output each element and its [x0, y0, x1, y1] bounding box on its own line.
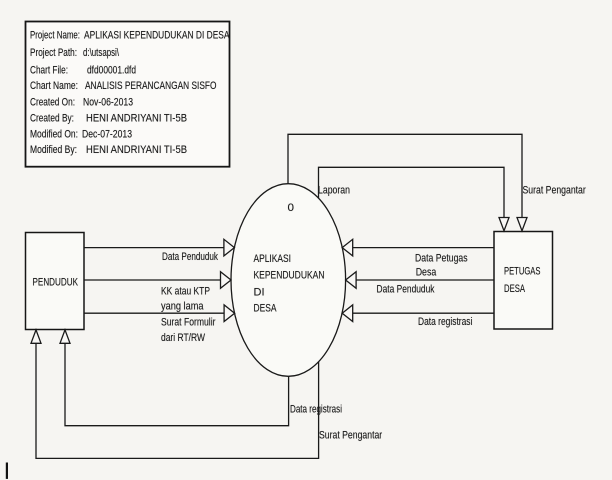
svg-text:Project Path:: Project Path: [30, 47, 77, 59]
svg-text:Data registrasi: Data registrasi [290, 404, 342, 416]
svg-text:DI: DI [254, 287, 265, 299]
svg-text:KEPENDUDUKAN: KEPENDUDUKAN [254, 269, 325, 281]
svg-text:Chart Name:: Chart Name: [30, 80, 78, 92]
external entity PENDUDUK [26, 233, 85, 330]
project info box [26, 22, 230, 167]
svg-text:DESA: DESA [254, 302, 277, 314]
svg-text:Data Petugas: Data Petugas [415, 253, 468, 265]
svg-text:Desa: Desa [416, 267, 437, 279]
svg-text:Modified On:: Modified On: [30, 128, 78, 140]
svg-text:KK atau KTP: KK atau KTP [161, 285, 210, 297]
svg-text:PENDUDUK: PENDUDUK [33, 277, 79, 289]
svg-text:Chart File:: Chart File: [30, 64, 68, 76]
svg-text:Created By:: Created By: [30, 113, 74, 125]
svg-text:HENI ANDRIYANI TI-5B: HENI ANDRIYANI TI-5B [86, 144, 187, 156]
svg-text:Data Penduduk: Data Penduduk [377, 284, 435, 296]
svg-text:Modified By:: Modified By: [30, 144, 77, 156]
process 0 APLIKASI KEPENDUDUKAN DI DESA [231, 184, 346, 377]
flow Surat Pengantar (0 to PENDUDUK, bottom outer) [31, 330, 382, 459]
text cursor artifact bottom-left [6, 463, 8, 479]
svg-text:DESA: DESA [504, 283, 525, 295]
svg-text:Data Penduduk: Data Penduduk [162, 251, 218, 263]
svg-text:APLIKASI KEPENDUDUKAN DI DESA: APLIKASI KEPENDUDUKAN DI DESA [84, 29, 230, 41]
flow Surat Pengantar (0 to PETUGAS DESA, top outer) [288, 134, 586, 231]
flow Data registrasi (0 to PENDUDUK, bottom inner) [60, 330, 342, 426]
flow Data Petugas Desa (PETUGAS DESA to 0) [342, 239, 494, 278]
external entity PETUGAS DESA [494, 232, 553, 330]
svg-text:Nov-06-2013: Nov-06-2013 [83, 96, 133, 108]
flow Data Penduduk (PETUGAS DESA to 0) [346, 272, 494, 296]
svg-text:Dec-07-2013: Dec-07-2013 [82, 128, 132, 140]
svg-text:d:\utsapsi\: d:\utsapsi\ [83, 47, 120, 59]
svg-text:Project Name:: Project Name: [30, 29, 80, 41]
svg-text:yang lama: yang lama [161, 301, 204, 313]
flow Data Penduduk (PENDUDUK to 0) [84, 239, 234, 263]
svg-text:PETUGAS: PETUGAS [504, 266, 541, 278]
svg-text:0: 0 [288, 202, 295, 214]
svg-text:APLIKASI: APLIKASI [254, 253, 292, 265]
svg-text:dfd00001.dfd: dfd00001.dfd [87, 64, 136, 76]
svg-text:HENI ANDRIYANI TI-5B: HENI ANDRIYANI TI-5B [86, 113, 187, 125]
flow Surat Formulir dari RT/RW (PENDUDUK to 0) [84, 305, 235, 344]
svg-text:ANALISIS PERANCANGAN SISFO: ANALISIS PERANCANGAN SISFO [85, 80, 217, 92]
svg-text:Surat Pengantar: Surat Pengantar [523, 185, 587, 197]
flow Laporan (0 to PETUGAS DESA, top inner) [318, 167, 509, 231]
svg-text:Surat Formulir: Surat Formulir [161, 317, 216, 329]
flow KK atau KTP yang lama (PENDUDUK to 0) [84, 272, 231, 313]
flow Data registrasi (PETUGAS DESA to 0) [342, 305, 494, 328]
svg-text:Surat Pengantar: Surat Pengantar [319, 430, 382, 442]
svg-text:Data registrasi: Data registrasi [418, 316, 472, 328]
svg-text:Laporan: Laporan [318, 185, 350, 197]
svg-text:dari RT/RW: dari RT/RW [161, 332, 205, 344]
svg-text:Created On:: Created On: [30, 96, 75, 108]
